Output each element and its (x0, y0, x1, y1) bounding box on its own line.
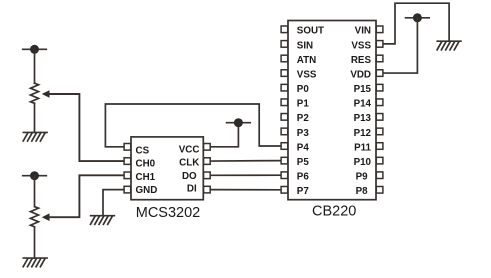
terminal dot T3 (supply for VCC) (227, 118, 251, 127)
U2 pin P8 (356, 186, 383, 197)
U2 pin P2 (281, 113, 309, 124)
U1 pin CLK (179, 158, 210, 169)
potentiometer VR2 (31, 207, 39, 227)
U2 pin P7 (281, 186, 309, 197)
svg-text:P13: P13 (354, 113, 372, 124)
U2 pin P5 (281, 157, 309, 168)
terminal dot T2 (top of potentiometer VR2) (23, 171, 47, 180)
wire VR2 wiper to CH1 (49, 175, 125, 217)
wire CLK to P5 (210, 160, 282, 162)
U2 pin P12 (354, 128, 383, 139)
svg-text:RES: RES (351, 55, 372, 66)
svg-text:P9: P9 (356, 172, 369, 183)
U2 pin P13 (354, 113, 383, 124)
svg-text:VIN: VIN (355, 26, 371, 37)
U2 pin P10 (354, 157, 383, 168)
svg-text:DO: DO (182, 171, 197, 182)
U2 pin P6 (281, 172, 309, 183)
svg-text:DI: DI (187, 183, 197, 194)
U1 pin CH1 (124, 172, 156, 183)
U2 pin SOUT (281, 26, 324, 37)
terminal dot T4 (supply for VDD) (406, 13, 430, 22)
terminal dot T1 (top of potentiometer VR1) (23, 45, 47, 54)
U2 pin P11 (354, 142, 383, 153)
svg-text:CH0: CH0 (136, 158, 156, 169)
wire CS to P4 (105, 104, 281, 147)
svg-text:SOUT: SOUT (297, 26, 324, 37)
wire DI to P7 (210, 189, 282, 191)
U1 pin GND (124, 185, 157, 196)
wire T2 to VR2 top (34, 176, 36, 207)
potentiometer VR1 (31, 83, 39, 103)
U1 pin DI (187, 183, 210, 194)
svg-text:P7: P7 (297, 186, 310, 197)
svg-text:ATN: ATN (297, 55, 316, 66)
svg-text:P4: P4 (297, 142, 310, 153)
svg-text:P11: P11 (354, 142, 371, 153)
U2 pin VSS right (351, 40, 383, 51)
wire GND to ground (103, 190, 124, 216)
svg-text:P6: P6 (297, 172, 310, 183)
wire VSS to ground (top right) (383, 3, 450, 44)
svg-text:P1: P1 (297, 99, 310, 110)
svg-text:P10: P10 (354, 157, 372, 168)
U2 pin ATN (281, 55, 316, 66)
svg-text:VCC: VCC (179, 145, 200, 156)
U2 pin P14 (354, 99, 383, 110)
svg-text:VSS: VSS (297, 69, 317, 80)
VR2 wiper arrow (42, 213, 50, 221)
VR1 wiper arrow (42, 90, 50, 98)
U1 pin DO (182, 171, 210, 182)
svg-text:CB220: CB220 (312, 203, 356, 219)
U2 pin P0 (281, 84, 309, 95)
svg-text:GND: GND (136, 185, 158, 196)
svg-text:SIN: SIN (297, 40, 313, 51)
svg-text:CLK: CLK (179, 158, 199, 169)
IC U1 MCS3202 body (131, 137, 203, 200)
svg-text:P8: P8 (356, 186, 369, 197)
svg-text:CH1: CH1 (136, 172, 156, 183)
wire VCC to terminal T3 (210, 123, 239, 147)
svg-text:P14: P14 (354, 99, 372, 110)
ground G2 (23, 258, 47, 267)
U2 pin SIN (281, 40, 313, 51)
ground G1 (23, 132, 47, 141)
U2 pin P15 (354, 84, 383, 95)
ground G4 (437, 41, 461, 50)
svg-text:P15: P15 (354, 84, 372, 95)
wire T1 to VR1 top (34, 49, 36, 83)
U2 pin P1 (281, 99, 309, 110)
wire VR1 wiper to CH0 (49, 94, 125, 161)
U2 pin P4 (281, 142, 309, 153)
U1 pin VCC (179, 144, 210, 156)
U2 pin VIN (355, 26, 383, 37)
svg-text:VSS: VSS (351, 40, 371, 51)
svg-text:CS: CS (136, 146, 150, 157)
IC U2 CB220 body (288, 21, 376, 200)
svg-text:P2: P2 (297, 113, 310, 124)
U2 pin VSS left (281, 69, 317, 80)
ground G3 (91, 216, 115, 225)
svg-text:P0: P0 (297, 84, 310, 95)
svg-text:MCS3202: MCS3202 (136, 205, 200, 221)
U2 pin VDD (350, 69, 383, 80)
U2 pin P3 (281, 128, 309, 139)
wire DO to P6 (210, 174, 282, 176)
svg-text:P12: P12 (354, 128, 372, 139)
U1 pin CS (124, 144, 149, 157)
U2 pin RES (351, 55, 383, 66)
U2 pin P9 (356, 172, 383, 183)
svg-text:P5: P5 (297, 157, 310, 168)
svg-text:VDD: VDD (350, 69, 371, 80)
wire T4 to VDD (383, 18, 418, 73)
wire VR2 bottom to ground (34, 227, 36, 258)
U1 pin CH0 (124, 158, 156, 170)
svg-text:P3: P3 (297, 128, 310, 139)
wire VR1 bottom to ground (34, 103, 36, 132)
